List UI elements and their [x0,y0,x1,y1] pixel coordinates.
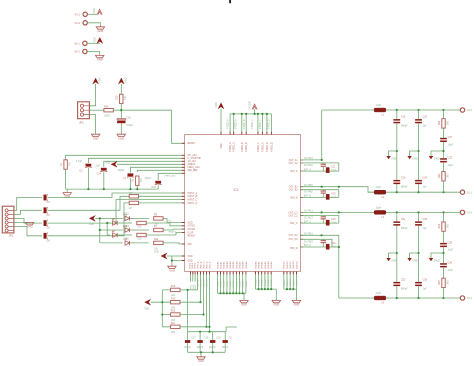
wire C19 column [396,110,398,192]
svg-text:GNDC: GNDC [290,279,292,286]
IC1 left pin names [188,143,202,262]
wire AC_CM from C14 [104,161,185,167]
capacitor C4 input A [44,194,51,204]
resistor R1 [60,160,71,169]
svg-text:PVDD: PVDD [247,101,251,108]
wire BAT_A [300,170,338,172]
sheet tick mark [229,0,231,3]
svg-text:JP1: JP1 [9,234,14,238]
svg-text:PVDD_C: PVDD_C [258,142,260,152]
svg-text:GNDA2: GNDA2 [223,261,226,269]
resistor R7 [154,225,163,232]
capacitor C5 input B [44,207,51,217]
inductor L3 [374,206,386,219]
svg-text:VDD_C: VDD_C [203,261,205,269]
svg-text:C2: C2 [79,170,83,173]
svg-text:GNDA: GNDA [235,281,238,288]
svg-text:GNDA9: GNDA9 [245,261,248,269]
svg-text:100R: 100R [104,114,110,117]
svg-text:OUT_D1: OUT_D1 [289,235,299,237]
svg-text:10µF: 10µF [331,223,337,225]
resistor R4 input D [129,201,139,210]
svg-text:IOTW1: IOTW1 [188,226,196,228]
wire bottom rail of bottom filter [339,297,463,299]
wire right column top filter [442,110,444,192]
wire analog gnd rail [66,188,159,190]
svg-text:X2-2: X2-2 [74,50,80,54]
wire R8 to IC ICLIP [146,232,184,235]
wire pad X2-2 to GND [87,52,100,56]
svg-text:OSD: OSD [167,221,172,223]
capacitor C28 [440,241,454,251]
svg-text:VDD_D: VDD_D [206,280,208,288]
svg-text:PVDD_B: PVDD_B [246,142,248,152]
connector X1 6-pin [2,206,14,237]
resistor R16 [171,285,180,297]
resistor R19 [171,297,180,309]
svg-text:VDD: VDD [221,143,223,148]
IC1 bottom pin names [190,261,299,269]
svg-text:L4: L4 [382,302,385,305]
svg-text:PVDD_C: PVDD_C [262,142,264,152]
svg-text:BAT_C: BAT_C [304,220,312,223]
svg-text:GNDB: GNDB [268,279,270,286]
svg-text:10µF: 10µF [448,269,454,272]
svg-text:C23: C23 [423,115,428,118]
capacitor C6 input C [44,220,51,230]
capacitor C27 [440,136,454,146]
capacitor C24 [415,176,428,188]
svg-text:L3: L3 [382,216,385,219]
svg-text:R21: R21 [171,322,176,325]
svg-text:GNDB: GNDB [262,279,264,286]
svg-text:BAT_D: BAT_D [304,244,312,247]
ground GND group C [292,300,300,306]
wire R16 to IC pin [180,272,198,290]
pad X2-1 [74,41,87,45]
svg-text:10µH: 10µH [376,186,382,189]
ground arrow AGND6 [429,253,444,262]
svg-text:C_STARTUP: C_STARTUP [188,157,202,160]
svg-text:10µF: 10µF [448,164,454,167]
junction dots gnd group B [257,288,272,290]
inductor L4 [374,292,386,305]
svg-text:C27: C27 [448,136,453,139]
svg-text:GNDB: GNDB [255,279,257,286]
ground GND [96,27,104,33]
wire VDD to IC pin [220,109,222,135]
svg-text:PVDD_D: PVDD_D [267,142,269,152]
svg-text:R20: R20 [171,310,176,313]
wire OUT_C2 [300,216,338,224]
wire OUT_D1 down to filter [300,234,338,298]
svg-text:OUT_B1: OUT_B1 [289,187,299,189]
svg-text:GNDA: GNDA [216,281,219,288]
svg-text:510: 510 [137,238,142,241]
wire input A to IC [48,193,185,198]
wire OUT_B2 [300,190,338,198]
svg-text:3R3: 3R3 [447,120,449,125]
wire bus drops to IC top pins [230,114,271,135]
resistor R11 [154,238,163,250]
svg-text:R2: R2 [132,178,135,182]
svg-text:GNDA: GNDA [229,281,232,288]
wire JP2 pin2 to R14 [89,109,104,111]
wire IC pin to cap rail [207,272,211,332]
resistor R22 [439,119,450,128]
pad X2-2 [74,49,87,53]
svg-text:3R3: 3R3 [447,173,449,178]
capacitor C38 group D [326,244,337,250]
svg-text:VDD_C: VDD_C [203,280,205,288]
wire VDD to JP2 pin 1 [89,84,95,106]
IC1 right pin names [289,159,299,250]
svg-text:4k7: 4k7 [129,207,134,210]
resistor R23 [439,172,450,181]
svg-text:VDD_A: VDD_A [196,261,199,269]
wire C21 column [396,212,398,298]
svg-text:OUT#A1: OUT#A1 [304,157,314,160]
svg-text:VDD: VDD [92,8,96,14]
ground GND at IC left bottom [168,266,176,272]
resistor R2 [132,176,143,185]
capacitor C2 4.7uF [76,160,92,172]
svg-text:INPUT_A: INPUT_A [188,192,198,195]
svg-text:C19: C19 [401,115,406,118]
svg-text:47k: 47k [68,161,71,166]
ground GND [96,55,104,61]
ground GND under JP2 [91,134,99,140]
wire X1 pin3 to C6 [14,219,42,224]
pad X1-1 [75,12,88,16]
svg-text:OSD: OSD [188,222,193,224]
IC1 pin stubs [182,132,303,274]
wire X1 pin2 to C5 [14,210,42,214]
capacitor C17 [184,337,196,349]
svg-text:IC1: IC1 [234,188,239,192]
svg-text:10µF: 10µF [331,170,337,172]
svg-text:X3-2: X3-2 [467,211,473,215]
wire VDD to R13 [120,84,122,94]
svg-text:R23: R23 [439,173,441,178]
wire VDD pin [167,256,185,266]
svg-text:BAT_A: BAT_A [304,168,312,171]
ground arrow AGND3 [429,151,444,160]
ground arrow AGND1 [386,151,397,160]
junction dots on PVDD bus [233,113,268,115]
svg-text:GNDA5: GNDA5 [232,261,235,269]
wire LED5 to R11 [130,242,149,244]
svg-text:1µF: 1µF [96,165,101,168]
wire IC bottom gnd group A [217,272,246,301]
svg-text:4k7: 4k7 [129,192,134,195]
svg-text:C20: C20 [401,176,406,179]
svg-text:X1-1: X1-1 [75,12,81,16]
svg-text:OUT_A2: OUT_A2 [289,162,299,165]
capacitor C37 group C [326,220,337,226]
svg-text:LED5: LED5 [123,238,130,241]
capacitor C25 [415,218,428,230]
wire OUT_A1 up to filter [300,110,322,161]
svg-text:C33: C33 [331,219,336,221]
capacitor C31 group A [321,163,337,171]
svg-text:R13: R13 [116,95,119,100]
svg-text:OUT#C2: OUT#C2 [304,218,314,220]
wire C16 to GND [120,123,122,134]
svg-text:GNDA6: GNDA6 [235,261,238,269]
svg-text:100µF: 100µF [126,124,133,127]
junction dots gnd group A [219,292,243,294]
svg-text:C4: C4 [47,201,51,204]
wire R2 to gnd rail [136,185,138,189]
wire IC bottom gnd group C [284,272,297,301]
svg-text:VDD_B: VDD_B [200,261,202,269]
wire IC bottom aux pins [191,272,198,290]
wire caps to bottom rail [188,343,226,357]
svg-text:VDD: VDD [105,162,110,165]
svg-text:10µH: 10µH [376,104,382,107]
svg-text:R7: R7 [154,225,158,228]
wire C23 column [417,110,419,192]
wire input C to IC [48,200,185,224]
svg-text:X3-1: X3-1 [467,296,473,300]
wire R21 to IC pin [180,272,208,328]
wire VDD arrow to IC VREG1 [117,164,185,172]
capacitor C36 group B [326,194,337,200]
svg-text:680pF: 680pF [401,287,408,290]
svg-text:READY: READY [169,230,177,233]
ground GND bottom caps [197,357,205,363]
svg-text:680pF: 680pF [401,227,408,230]
wire OUT_B1 to filter [300,186,373,193]
capacitor C35 group A [326,167,337,173]
capacitor C16 [117,117,134,128]
supply PVDD open arrow above bus [247,101,257,109]
svg-text:10µF: 10µF [448,143,454,146]
LED1 [123,212,130,220]
wire decoupling cap top rail [188,327,237,333]
svg-text:C5: C5 [47,214,51,217]
svg-text:M/S: M/S [188,244,193,246]
svg-text:OUT#A2: OUT#A2 [304,164,314,167]
capacitor C7 [123,173,134,180]
wire pad X1-1 to VDD [87,13,97,15]
net label BAT_B [304,195,312,198]
wire left drop to cap rail [187,289,189,332]
ground GND under C16 [117,134,125,140]
supply VDD left arrow for LEDs [89,216,95,227]
svg-text:GND2: GND2 [194,262,196,269]
svg-text:I2C_ADJ: I2C_ADJ [188,154,197,157]
svg-text:GNDC0: GNDC0 [284,261,286,269]
resistor R14 [104,105,113,117]
net labels PVDD wires [227,119,271,129]
svg-text:GNDB2: GNDB2 [262,261,264,269]
inductor L1 [374,104,386,117]
svg-text:R14: R14 [104,105,109,108]
net label BAT_D [304,244,312,247]
wire VDD to LED rails [95,217,122,243]
svg-text:C7: C7 [123,177,127,180]
svg-text:1µF: 1µF [423,227,428,230]
supply VDD arrow above JP2 [93,77,102,84]
svg-text:C28: C28 [448,241,453,244]
svg-text:GNDB4: GNDB4 [268,261,270,269]
net label OUT_B1 [304,185,314,187]
wire PVDD bus [230,113,271,115]
capacitor C22 [393,278,408,290]
svg-text:C32: C32 [331,193,336,195]
svg-text:X2-2: X2-2 [467,108,473,112]
svg-text:BAT_B: BAT_B [290,196,298,199]
svg-text:R25: R25 [439,280,441,285]
wire R13 to node [120,104,122,111]
svg-text:C29: C29 [448,157,453,160]
capacitor C30 [440,262,454,272]
wire R20 to IC pin [180,272,205,316]
svg-text:C21: C21 [401,218,406,221]
resistor R8 [137,233,146,240]
LED5 [123,238,130,245]
svg-text:IOTW2: IOTW2 [188,229,196,231]
svg-text:LED1: LED1 [123,212,130,215]
junction dots gnd rail [87,188,138,190]
capacitor C20 [393,176,408,188]
svg-text:RESET: RESET [188,143,196,145]
resistor R24 [439,222,450,231]
svg-text:VDD_D: VDD_D [206,261,208,269]
svg-text:PVDD_D: PVDD_D [269,119,271,129]
svg-text:GNDA3: GNDA3 [226,261,229,269]
supply VDD arrow above R13 [118,77,127,84]
svg-text:C22: C22 [401,278,406,281]
svg-text:GNDC: GNDC [284,279,286,286]
wire top filter rail [322,109,463,111]
svg-text:GNDA7: GNDA7 [238,261,241,269]
svg-text:GNDC: GNDC [297,279,299,286]
svg-text:BAT_D: BAT_D [290,247,298,250]
wire pad X1-2 to GND [87,23,100,27]
svg-text:VDD: VDD [123,77,127,83]
svg-text:C15: C15 [204,337,209,340]
svg-text:1µF: 1µF [423,185,428,188]
svg-text:330µF: 330µF [145,177,152,180]
wire I2C_ADJ from R1 [66,155,185,160]
svg-text:47k: 47k [124,95,127,100]
svg-text:GNDA4: GNDA4 [229,261,232,269]
net label FREQ_ADJ [165,175,176,178]
op-amp IC1 box [185,135,301,272]
net labels IC bottom wires [196,279,298,287]
svg-text:MID_REF: MID_REF [188,170,199,172]
wire LED3 to R7 [130,229,149,231]
svg-text:3R3: 3R3 [447,280,449,285]
ground GND group A [240,300,248,306]
svg-text:OUT#D1: OUT#D1 [304,234,314,236]
svg-text:GNDC4: GNDC4 [296,261,298,269]
wire R14 to RESET node [113,110,184,143]
svg-text:R19: R19 [171,297,176,300]
svg-text:VDD: VDD [188,256,193,258]
svg-text:C34: C34 [331,243,336,245]
wire C25 column [417,212,419,298]
wire stubs rail to caps [188,332,226,340]
wire LED1 to R5 [130,217,149,219]
wire node to C16 [120,110,122,118]
svg-text:VDD: VDD [214,102,218,108]
svg-text:R16: R16 [171,285,176,288]
resistor R25 [439,278,450,287]
svg-text:VDD_B: VDD_B [200,280,202,288]
svg-text:PVDD_A: PVDD_A [229,142,232,152]
wire R5 to IC OSD [163,218,185,222]
ground GND group B [272,300,280,306]
supply VDD arrow above IC [214,102,224,109]
net label BAT_A [304,168,312,171]
svg-text:GNDA: GNDA [232,281,235,288]
resistor R21 [171,322,180,334]
svg-text:PVDD_B: PVDD_B [244,119,246,129]
svg-text:C31: C31 [331,167,336,169]
svg-text:PVDD_A: PVDD_A [227,119,230,129]
wire mid pin from C13 [158,173,184,180]
svg-text:GNDB: GNDB [259,279,261,286]
svg-text:GNDB5: GNDB5 [271,261,273,269]
net labels near IC left [167,221,177,234]
svg-text:1R2: 1R2 [171,331,176,334]
svg-text:GNDC1: GNDC1 [287,261,289,269]
svg-text:BAT_C: BAT_C [290,222,298,225]
supply VDD (filled arrow) [93,37,103,44]
net label OUT_D1 [304,234,314,236]
capacitor C21 [393,218,408,230]
svg-text:C13: C13 [152,186,157,189]
LED2 [112,218,117,225]
net label OUT_B2 [304,192,314,194]
wire R19 to IC pin [180,272,202,304]
wire X1 pin5 to C8 [14,227,42,236]
svg-text:GNDA: GNDA [223,281,226,288]
wire JP2 pin3 to GND [89,115,95,135]
supply VDD (open arrow) [92,8,102,15]
net label OUT_D2 [304,241,314,243]
LED4 [112,230,117,237]
svg-text:R22: R22 [439,120,441,125]
capacitor C8 input D [44,232,51,242]
ground arrow AGND2 [407,151,418,160]
net label BAT_C [304,220,312,223]
pad X1-2 [75,21,88,25]
svg-text:10µH: 10µH [376,292,382,295]
svg-text:PVDD_C: PVDD_C [252,119,254,129]
svg-text:GNDC3: GNDC3 [293,261,295,269]
junction node R13/R14/C16 [120,109,122,111]
svg-text:OUT#B2: OUT#B2 [304,192,314,194]
svg-text:C26: C26 [423,278,428,281]
svg-text:READY: READY [188,235,196,238]
svg-text:GNDA: GNDA [226,281,229,288]
wire OUT_D2 [300,239,332,247]
wire BAT_C [300,222,338,224]
LED3 [123,225,130,232]
svg-text:X2-1: X2-1 [74,41,80,45]
capacitor C13 330uF [145,177,162,189]
ground arrow AGND5 [407,253,418,262]
svg-text:OUT_A1: OUT_A1 [289,159,299,162]
capacitor C33 group C [321,216,337,224]
svg-text:VDD: VDD [93,37,97,43]
wire C2 to gnd rail [87,168,89,189]
